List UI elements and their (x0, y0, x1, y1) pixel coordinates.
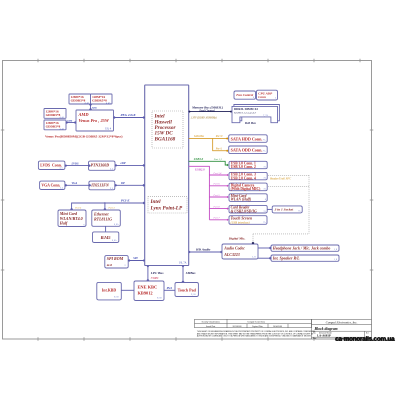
svg-text:3 in 1 Socket: 3 in 1 Socket (274, 208, 295, 212)
svg-text:RANK:0,1,2,3,4,5,6,7: RANK:0,1,2,3,4,5,6,7 (234, 111, 257, 114)
svg-text:2014/05/06: 2014/05/06 (273, 326, 282, 328)
svg-text:Expired Date: Expired Date (252, 326, 263, 328)
svg-text:Fan Control: Fan Control (236, 93, 253, 97)
svg-text:6, 6A: 6, 6A (114, 223, 119, 226)
svg-text:Compal Secret Data: Compal Secret Data (247, 321, 265, 323)
svg-text:2: 2 (275, 98, 276, 100)
svg-text:Port 3,4: Port 3,4 (213, 172, 223, 175)
svg-text:Issued Date: Issued Date (206, 326, 215, 328)
svg-text:3, 5: 3, 5 (60, 188, 63, 190)
svg-text:4, 4A: 4, 4A (85, 102, 90, 105)
svg-text:Date:: Date: (313, 338, 317, 340)
svg-text:Venus Pro(HD8850M)(2GB GDDR5 3: Venus Pro(HD8850M)(2GB GDDR5 32M*32*8*6p… (45, 135, 123, 139)
svg-text:Port 1: Port 1 (215, 148, 223, 151)
svg-text:6: 6 (84, 225, 85, 227)
svg-text:Int. Speaker R/L: Int. Speaker R/L (272, 257, 300, 261)
svg-text:Half: Half (59, 221, 68, 226)
svg-text:SMBus: SMBus (186, 271, 197, 275)
svg-text:Port 6: Port 6 (213, 183, 221, 186)
svg-text:8GB Max: 8GB Max (245, 122, 256, 125)
svg-text:GDDR5*8: GDDR5*8 (71, 99, 86, 103)
svg-text:Audio Codec: Audio Codec (223, 246, 245, 250)
svg-text:HD Audio: HD Audio (195, 247, 211, 251)
svg-text:2013/05/06: 2013/05/06 (232, 326, 241, 328)
svg-text:32bit: 32bit (91, 107, 97, 110)
svg-text:LPC Bus: LPC Bus (150, 271, 164, 275)
svg-text:8: 8 (253, 97, 254, 99)
svg-text:Port 0: Port 0 (215, 135, 223, 138)
svg-text:Size: Size (313, 332, 316, 334)
svg-text:Venus Pro , 25W: Venus Pro , 25W (79, 118, 110, 123)
svg-text:AUTHORIZED BY COMPAL AND ONLY: AUTHORIZED BY COMPAL AND ONLY TO A PERSO… (197, 334, 312, 337)
svg-text:DP: DP (120, 182, 125, 185)
svg-text:Port 8: Port 8 (213, 205, 221, 208)
svg-text:U8, 4: U8, 4 (105, 128, 111, 131)
svg-text:Block diagram: Block diagram (314, 327, 338, 331)
svg-text:GDDR5*8: GDDR5*8 (46, 125, 61, 129)
svg-text:& USB2.0/SD/3G: & USB2.0/SD/3G (231, 209, 258, 213)
svg-text:(With Digital MIC): (With Digital MIC) (231, 187, 261, 191)
svg-text:IT6513FN: IT6513FN (90, 183, 110, 188)
svg-text:RJ45: RJ45 (101, 235, 112, 240)
svg-text:GDDR5*8: GDDR5*8 (46, 113, 61, 117)
svg-text:m/d: m/d (107, 263, 112, 267)
svg-text:4, 4A: 4, 4A (106, 102, 111, 105)
svg-text:6: 6 (265, 199, 266, 201)
svg-text:Port 3: Port 3 (108, 207, 116, 210)
svg-text:AMD: AMD (78, 112, 90, 117)
svg-text:6, 6A: 6, 6A (112, 239, 117, 242)
svg-text:Int.KBD: Int.KBD (102, 288, 117, 292)
svg-text:1, 8: 1, 8 (334, 249, 337, 251)
svg-text:USB3.0: USB3.0 (194, 157, 204, 161)
svg-text:eDP: eDP (121, 162, 126, 165)
svg-text:3, 5: 3, 5 (110, 188, 113, 190)
svg-text:USB 2.0 Conn. 4: USB 2.0 Conn. 4 (231, 176, 256, 180)
svg-text:GDDR5*8: GDDR5*8 (92, 99, 107, 103)
svg-text:Port 5: Port 5 (213, 194, 221, 197)
svg-text:DDR3L DIMM X2: DDR3L DIMM X2 (234, 107, 258, 111)
svg-text:WLAN (Half): WLAN (Half) (231, 198, 251, 202)
svg-text:4, 4A: 4, 4A (60, 128, 65, 131)
svg-text:VGA Conn.: VGA Conn. (41, 183, 60, 187)
svg-text:4, 4A: 4, 4A (60, 116, 65, 119)
svg-text:Touch Pad: Touch Pad (178, 288, 197, 293)
svg-text:SPI ROM: SPI ROM (107, 256, 124, 261)
svg-text:PS/2: PS/2 (167, 287, 173, 290)
svg-text:ca-monorails.com.ua: ca-monorails.com.ua (335, 335, 395, 342)
svg-text:Digital Mic.: Digital Mic. (228, 236, 246, 240)
svg-text:RTL8111G: RTL8111G (94, 217, 112, 222)
svg-text:SATA Bus: SATA Bus (194, 135, 204, 138)
svg-text:PTN3360D: PTN3360D (91, 163, 110, 168)
svg-text:64bit: 64bit (67, 119, 72, 122)
svg-text:Port 7: Port 7 (213, 217, 221, 220)
svg-text:Security Classification: Security Classification (202, 320, 220, 323)
svg-text:U6, 7A: U6, 7A (179, 261, 187, 264)
svg-text:USB2.0: USB2.0 (195, 168, 205, 172)
svg-text:Header/Until NFC: Header/Until NFC (269, 178, 291, 181)
svg-text:7, 7A: 7, 7A (263, 114, 268, 117)
svg-text:3, 5: 3, 5 (60, 168, 63, 170)
svg-text:SATA HDD Conn.: SATA HDD Conn. (231, 136, 263, 141)
svg-text:VGA: VGA (72, 182, 78, 185)
svg-text:ENE KBC: ENE KBC (138, 285, 158, 290)
svg-text:KB9012: KB9012 (138, 290, 153, 295)
svg-text:Dual Channel: Dual Channel (198, 109, 214, 112)
svg-text:Port 1,2: Port 1,2 (213, 158, 223, 161)
svg-text:Headphone Jack / Mic. Jack com: Headphone Jack / Mic. Jack combo (272, 247, 331, 251)
svg-text:Rev: Rev (366, 332, 369, 334)
svg-text:1, 8: 1, 8 (334, 259, 337, 261)
svg-text:PCI-E: PCI-E (121, 199, 130, 203)
svg-text:Conn: Conn (258, 95, 266, 99)
svg-text:3, 5: 3, 5 (110, 169, 113, 171)
svg-text:(USB interface): (USB interface) (231, 220, 250, 224)
svg-text:BGA1168: BGA1168 (154, 136, 176, 142)
svg-text:ALC3223: ALC3223 (223, 253, 239, 257)
svg-text:Port 5: Port 5 (74, 207, 82, 210)
svg-text:PEG 2.0x8: PEG 2.0x8 (121, 113, 136, 117)
svg-text:1.35V (DDR3 1600MHz): 1.35V (DDR3 1600MHz) (191, 117, 217, 120)
svg-text:USB 3.0 Conn. 2: USB 3.0 Conn. 2 (231, 165, 256, 169)
svg-text:LA-A681P: LA-A681P (317, 333, 331, 337)
svg-text:33MHz: 33MHz (151, 277, 159, 280)
svg-text:SATA ODD Conn.: SATA ODD Conn. (231, 148, 263, 153)
svg-text:Lynx Point-LP: Lynx Point-LP (150, 206, 183, 212)
svg-text:Intel: Intel (150, 199, 162, 205)
svg-text:2: 2 (125, 265, 126, 267)
svg-text:LVDS: LVDS (71, 162, 79, 165)
